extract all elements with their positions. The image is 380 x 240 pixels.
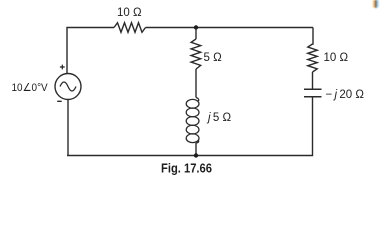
decorative corner stripe (cropped highlight at top-right) xyxy=(373,0,378,8)
wire right branch top xyxy=(312,28,315,45)
svg-text:− j 20 Ω: − j 20 Ω xyxy=(326,89,365,101)
wire top-right segment xyxy=(146,27,314,29)
svg-text:j 5 Ω: j 5 Ω xyxy=(206,112,231,124)
inductor j5 coil xyxy=(186,98,199,144)
resistor 5ohm (vertical zigzag) xyxy=(191,39,201,69)
resistor 10ohm right (vertical zigzag) xyxy=(308,44,317,72)
minus sign xyxy=(57,100,62,102)
wire middle branch mid xyxy=(195,69,197,98)
wire middle branch bottom xyxy=(195,143,197,156)
svg-text:10 Ω: 10 Ω xyxy=(117,7,142,19)
capacitor -j20 plates xyxy=(304,88,322,90)
svg-text:10∠0°V: 10∠0°V xyxy=(12,82,49,94)
wire left bottom segment xyxy=(67,100,69,156)
plus sign xyxy=(60,65,65,70)
wire right branch mid xyxy=(312,72,314,89)
sine wave inside source xyxy=(60,82,76,91)
node A junction dot top xyxy=(194,25,198,29)
wire top-left segment xyxy=(67,28,114,75)
svg-text:10 Ω: 10 Ω xyxy=(324,52,349,64)
svg-text:Fig. 17.66: Fig. 17.66 xyxy=(161,162,212,176)
svg-text:5 Ω: 5 Ω xyxy=(204,52,223,64)
wire right branch bottom xyxy=(67,97,313,156)
node B junction dot bottom xyxy=(194,153,198,157)
source V1 10angle0 circle xyxy=(55,74,81,100)
resistor R top 10ohm (horizontal zigzag) xyxy=(114,23,146,33)
wire middle branch top xyxy=(195,28,197,40)
